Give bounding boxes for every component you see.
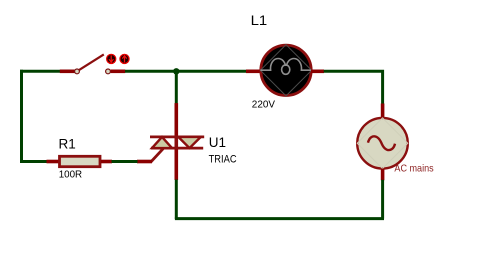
svg-text:100R: 100R — [59, 169, 83, 181]
wire: bottom rail — [175, 217, 384, 220]
pin: switch left pin — [60, 70, 75, 74]
svg-text:220V: 220V — [252, 100, 276, 111]
wire: triac to bottom rail — [175, 180, 178, 220]
pin: triac internal vertical — [175, 137, 179, 148]
svg-text:AC mains: AC mains — [394, 163, 433, 174]
triac U1 right triangle — [178, 137, 201, 148]
switch actuator button up — [119, 54, 129, 64]
lamp L1 body — [260, 45, 311, 96]
pin: AC source bottom pin — [381, 169, 385, 181]
pin: switch right pin — [111, 70, 126, 74]
pin: triac gate diagonal — [151, 148, 164, 162]
AC mains source body — [357, 118, 408, 169]
pin: triac MT1 pin — [175, 148, 179, 180]
pin: triac MT2 pin — [175, 103, 179, 137]
resistor R1 body — [60, 156, 101, 166]
node: junction at triac branch — [173, 68, 179, 74]
wire: left vertical (top-left corner down to resistor row) — [22, 70, 48, 162]
svg-text:R1: R1 — [59, 137, 76, 152]
triac U1 top bar — [150, 135, 204, 138]
triac U1 left triangle — [152, 137, 172, 148]
pin: resistor left pin — [47, 160, 60, 164]
wire: triac branch vertical (junction down) — [175, 71, 178, 103]
svg-text:TRIAC: TRIAC — [209, 154, 237, 166]
switch terminal right — [106, 69, 111, 74]
switch SW lever — [78, 54, 104, 70]
pin: AC source top pin — [381, 104, 385, 119]
pin: resistor right pin — [101, 160, 112, 164]
pin: lamp right pin — [311, 70, 324, 74]
wire: resistor to gate — [112, 160, 138, 163]
switch terminal left — [75, 69, 80, 74]
svg-text:U1: U1 — [209, 135, 226, 150]
switch actuator button down — [106, 54, 116, 64]
wire: right vertical down to bottom rail — [381, 180, 384, 219]
triac U1 bottom bar — [151, 147, 203, 150]
svg-text:L1: L1 — [251, 13, 268, 29]
pin: triac gate horizontal — [137, 160, 152, 164]
wire: top rail left segment (corner to switch left pin) — [20, 70, 60, 73]
wire: top rail (switch to lamp) — [125, 70, 247, 73]
wire: top rail right (lamp to right corner) — [324, 71, 383, 104]
pin: lamp left pin — [246, 70, 261, 74]
